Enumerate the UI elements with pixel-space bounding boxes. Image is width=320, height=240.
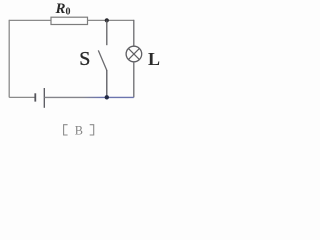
wire: lamp branch lower vertical bbox=[133, 62, 135, 98]
node: bottom junction dot bbox=[105, 95, 109, 99]
node: top junction dot bbox=[105, 18, 109, 22]
wire: bottom left (corner to battery) bbox=[9, 96, 35, 98]
battery: long plate (positive) bbox=[43, 88, 45, 108]
label [B]: right bracket bbox=[90, 125, 94, 135]
wire: top left horizontal (corner to resistor) bbox=[9, 19, 51, 21]
wire: lamp branch upper vertical bbox=[133, 20, 135, 47]
label [B]: left bracket bbox=[64, 125, 68, 135]
lamp L: cross X bbox=[129, 49, 140, 60]
wire: bottom (battery to right corner, blue-tinted right segment) bbox=[44, 96, 134, 98]
wire: resistor to top-right corner bbox=[88, 19, 134, 21]
svg-text:S: S bbox=[79, 48, 90, 70]
wire: switch branch lower segment bbox=[106, 70, 108, 97]
switch S blade (open) bbox=[98, 50, 107, 70]
resistor R0 bbox=[51, 17, 88, 24]
battery: short plate (negative) bbox=[34, 93, 36, 101]
wire: switch branch upper segment bbox=[106, 20, 108, 45]
svg-text:L: L bbox=[148, 49, 160, 69]
svg-text:B: B bbox=[75, 123, 83, 137]
lamp L: circle bbox=[126, 46, 142, 62]
wire: left vertical bbox=[8, 20, 10, 98]
